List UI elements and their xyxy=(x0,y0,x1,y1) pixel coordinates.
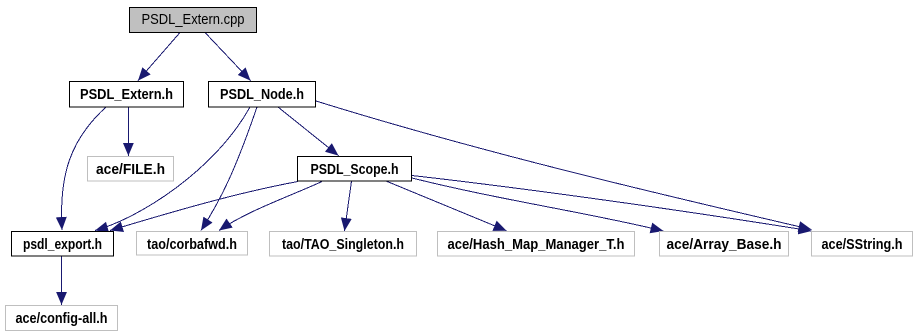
edge PSDL_Scope.h->ace/Array_Base.h xyxy=(412,178,664,231)
node ace/Array_Base.h xyxy=(660,232,789,257)
edge PSDL_Extern.h->ace/FILE.h xyxy=(127,107,129,156)
edge PSDL_Scope.h->psdl_export.h xyxy=(110,182,298,231)
edge PSDL_Scope.h->tao/TAO_Singleton.h xyxy=(345,181,352,231)
node ace/FILE.h xyxy=(88,157,174,182)
svg-text:PSDL_Extern.h: PSDL_Extern.h xyxy=(80,87,173,103)
node ace/SString.h xyxy=(812,232,913,257)
svg-text:ace/config-all.h: ace/config-all.h xyxy=(16,311,108,327)
svg-text:ace/Hash_Map_Manager_T.h: ace/Hash_Map_Manager_T.h xyxy=(448,237,625,253)
svg-text:tao/TAO_Singleton.h: tao/TAO_Singleton.h xyxy=(282,237,404,253)
edge PSDL_Node.h->PSDL_Scope.h xyxy=(278,107,339,156)
node PSDL_Scope.h xyxy=(298,157,412,182)
node ace/config-all.h xyxy=(6,306,118,331)
edge PSDL_Scope.h->tao/corbafwd.h xyxy=(219,182,322,231)
edge PSDL_Scope.h->ace/Hash_Map_Manager_T.h xyxy=(386,181,507,231)
node PSDL_Node.h xyxy=(209,82,316,108)
svg-text:tao/corbafwd.h: tao/corbafwd.h xyxy=(147,237,237,253)
svg-text:PSDL_Extern.cpp: PSDL_Extern.cpp xyxy=(142,12,245,28)
svg-text:PSDL_Scope.h: PSDL_Scope.h xyxy=(311,162,399,178)
edge PSDL_Node.h->ace/SString.h xyxy=(316,101,812,230)
edge psdl_export.h->ace/config-all.h xyxy=(61,256,63,305)
edge PSDL_Extern.h->psdl_export.h xyxy=(62,107,106,230)
node PSDL_Extern.cpp xyxy=(130,8,257,33)
node psdl_export.h xyxy=(12,232,114,257)
node ace/Hash_Map_Manager_T.h xyxy=(438,232,635,257)
svg-text:ace/FILE.h: ace/FILE.h xyxy=(96,162,165,178)
edge PSDL_Scope.h->ace/SString.h xyxy=(412,176,812,232)
svg-text:psdl_export.h: psdl_export.h xyxy=(23,237,102,253)
svg-text:ace/Array_Base.h: ace/Array_Base.h xyxy=(667,237,782,253)
edge PSDL_Extern.cpp->PSDL_Extern.h xyxy=(138,33,180,81)
node tao/TAO_Singleton.h xyxy=(270,232,417,257)
edge PSDL_Node.h->psdl_export.h xyxy=(95,107,250,231)
node tao/corbafwd.h xyxy=(137,232,248,256)
svg-text:PSDL_Node.h: PSDL_Node.h xyxy=(220,87,304,103)
edge PSDL_Node.h->tao/corbafwd.h xyxy=(201,107,257,231)
node PSDL_Extern.h xyxy=(70,82,184,108)
edge PSDL_Extern.cpp->PSDL_Node.h xyxy=(205,33,251,81)
svg-text:ace/SString.h: ace/SString.h xyxy=(822,237,903,253)
